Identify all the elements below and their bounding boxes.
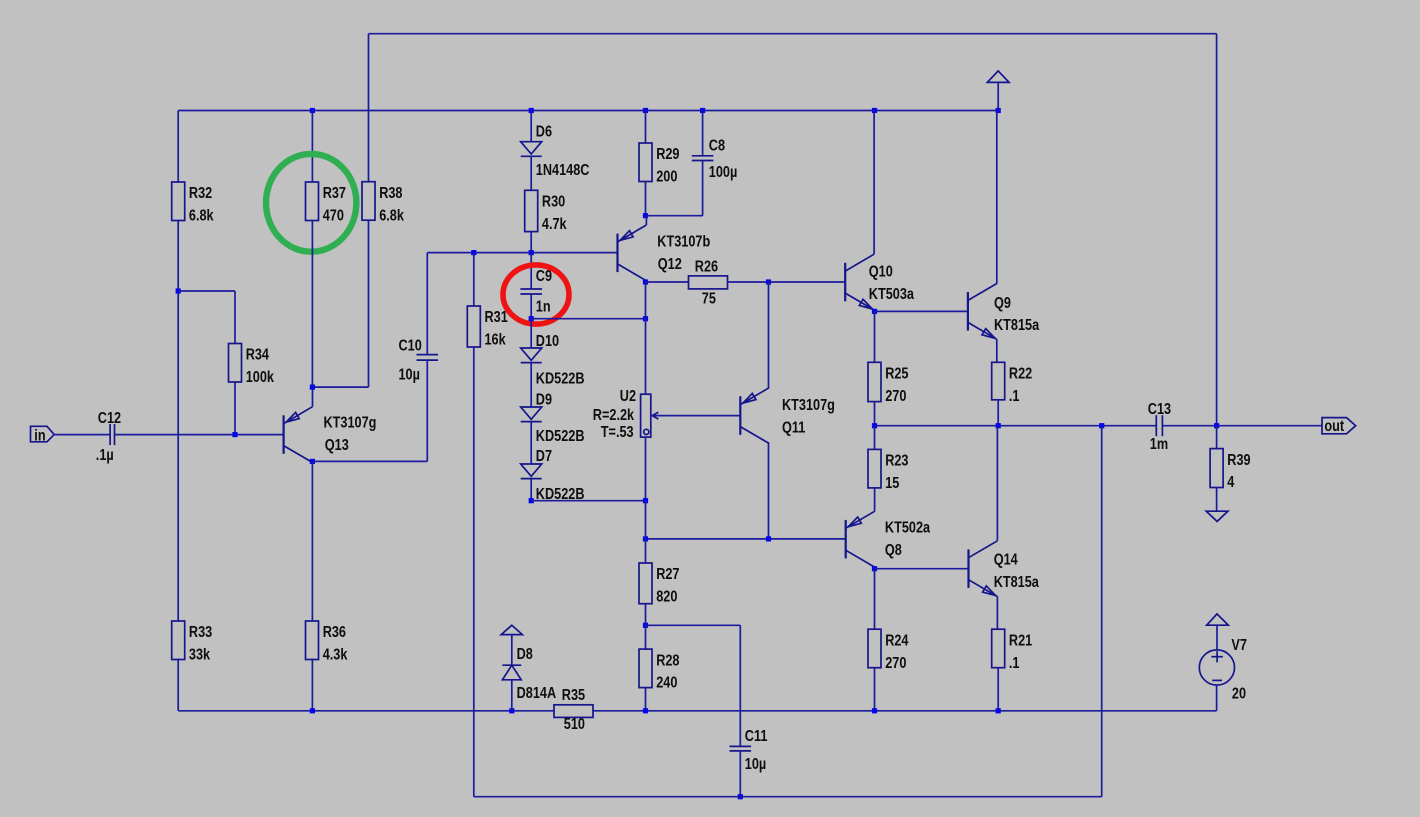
wire R23 top stem (874, 426, 876, 450)
svg-text:C11: C11 (745, 728, 768, 745)
svg-text:R26: R26 (695, 259, 718, 276)
svg-text:C13: C13 (1148, 401, 1171, 418)
wire C9 bottom stem (530, 294, 532, 319)
svg-text:KT815a: KT815a (994, 574, 1039, 591)
wire R30 bottom (530, 232, 532, 253)
junction node B13 branch (176, 288, 181, 293)
wire left column middle (177, 221, 179, 622)
junction Q8 collector node (872, 566, 877, 571)
wire R25 top stem (874, 311, 876, 362)
transistor Q11 (739, 396, 741, 435)
svg-text:75: 75 (702, 291, 716, 308)
wire C10 top stem (426, 253, 428, 355)
svg-text:C8: C8 (709, 137, 725, 154)
junction R31 top (471, 250, 476, 255)
svg-text:4.7k: 4.7k (542, 216, 567, 233)
wire Q14 collector up (996, 426, 998, 541)
wire D7 to bottom node (530, 479, 532, 501)
svg-text:820: 820 (656, 588, 677, 605)
diode D10 (521, 348, 542, 360)
wire C11 bottom stem (739, 751, 741, 797)
wire D8 anode stem (511, 680, 513, 711)
svg-text:10µ: 10µ (399, 366, 420, 383)
wire to R34 top (178, 290, 235, 292)
power flag V7 (1207, 614, 1229, 625)
voltage source V7 (1199, 650, 1234, 685)
wire left column bottom (177, 659, 179, 711)
junction output R25-R23 (872, 423, 877, 428)
wire bottom rail right (593, 710, 1217, 712)
svg-text:U2: U2 (620, 388, 636, 405)
capacitor C11 (730, 745, 752, 747)
wire node to R26 (646, 281, 689, 283)
junction bottom D8 (509, 708, 514, 713)
wire R21 bottom stem (997, 667, 999, 710)
wire Q10 emitter row to Q9 base (875, 310, 968, 312)
svg-text:1n: 1n (536, 298, 551, 315)
wire D10 anode stem (530, 319, 532, 348)
wire V7 bottom stem (1216, 685, 1218, 711)
junction U2 top node (643, 316, 648, 321)
junction node B12 (529, 250, 534, 255)
svg-text:R23: R23 (885, 452, 908, 469)
wire V+ flag stem (997, 82, 999, 110)
svg-text:V7: V7 (1231, 637, 1247, 654)
wire R29 bottom stem (645, 182, 647, 216)
junction node E13 (310, 385, 315, 390)
svg-text:D10: D10 (536, 333, 559, 350)
resistor R32 (172, 182, 185, 221)
junction output feedback (1099, 423, 1104, 428)
wire R31 long bottom (473, 347, 475, 797)
svg-text:R33: R33 (189, 624, 212, 641)
junction Q13 collector node (310, 459, 315, 464)
wire C12 to Q13 base (115, 434, 284, 436)
wire D10 to D9 (530, 363, 532, 407)
wire +rail (178, 110, 998, 112)
ground symbol (1206, 511, 1228, 521)
svg-text:R=2.2k: R=2.2k (593, 407, 634, 424)
wire emitter node to C8 (646, 215, 703, 217)
svg-text:240: 240 (656, 675, 677, 692)
transistor Q10 (844, 263, 846, 302)
resistor R34 (229, 344, 242, 383)
junction C9 bottom node (529, 316, 534, 321)
svg-text:20: 20 (1232, 685, 1246, 702)
svg-text:R22: R22 (1009, 365, 1032, 382)
U2 control arrow (652, 412, 658, 419)
wire R31 upper stem (473, 253, 475, 306)
wire D6 anode stem (530, 111, 532, 142)
port out (1322, 418, 1356, 434)
wire right side of top loop (1216, 34, 1218, 426)
resistor R33 (172, 621, 185, 660)
wire R37 bottom to node E13 (311, 221, 313, 388)
wire R27 bottom stem (645, 604, 647, 626)
svg-text:270: 270 (885, 388, 906, 405)
junction +rail Q9 collector (996, 108, 1001, 113)
wire R39 ground stem (1216, 488, 1218, 512)
svg-text:R36: R36 (323, 624, 346, 641)
svg-text:Q13: Q13 (325, 437, 349, 454)
wire Q13 emitter stub (312, 387, 314, 407)
svg-text:R35: R35 (562, 687, 585, 704)
svg-text:R21: R21 (1009, 632, 1032, 649)
wire R24 top stem (874, 569, 876, 630)
svg-text:R28: R28 (656, 652, 679, 669)
junction Q10 emitter node (872, 309, 877, 314)
wire R34 upper stem (234, 291, 236, 344)
junction U2 bottom node (643, 498, 648, 503)
transistor Q8 (845, 520, 847, 559)
svg-text:.1: .1 (1009, 388, 1020, 405)
resistor R23 (868, 449, 881, 488)
resistor R22 (992, 362, 1005, 400)
wire R29 top stem (645, 111, 647, 144)
wire R26 to node F (728, 281, 769, 283)
svg-text:R31: R31 (485, 309, 508, 326)
svg-text:6.8k: 6.8k (189, 207, 214, 224)
wire U2 column through (645, 501, 647, 563)
wire U2 arrow to Q11 base (652, 415, 740, 417)
diode D9 (521, 407, 542, 419)
svg-text:R32: R32 (189, 185, 212, 202)
svg-text:6.8k: 6.8k (379, 207, 404, 224)
wire Q9 emitter to R22 (996, 339, 998, 362)
resistor R24 (868, 629, 881, 668)
svg-text:R30: R30 (542, 193, 565, 210)
wire R28 top stem (645, 625, 647, 649)
red highlight circle around C9 (503, 265, 569, 324)
wire C8 bottom stem (702, 161, 704, 216)
junction bottom R36 (310, 708, 315, 713)
zener diode D8 (502, 664, 521, 666)
diode D7 (521, 464, 542, 476)
svg-text:KT815a: KT815a (994, 317, 1039, 334)
svg-text:KD522B: KD522B (536, 370, 585, 387)
svg-text:KT3107g: KT3107g (324, 415, 377, 432)
svg-text:KD522B: KD522B (536, 428, 585, 445)
wire node to C11 corner (646, 624, 741, 626)
svg-text:Q14: Q14 (994, 551, 1018, 568)
wire Q9 collector up (996, 111, 998, 284)
wire U2 top stem (645, 319, 647, 395)
wire C11 top stem (739, 625, 741, 746)
svg-text:R39: R39 (1227, 452, 1250, 469)
wire R22 bottom stem (997, 400, 999, 426)
wire R25 bottom stem (874, 402, 876, 426)
resistor R31 (467, 306, 480, 347)
wire R24 bottom stem (874, 667, 876, 710)
svg-text:1m: 1m (1150, 436, 1168, 453)
junction +rail R37 (310, 108, 315, 113)
svg-text:R25: R25 (885, 365, 908, 382)
wire Q12 collector down (645, 282, 647, 319)
wire Q8 collector row (875, 568, 969, 570)
resistor R29 (639, 143, 652, 182)
junction output right column (1214, 423, 1219, 428)
svg-text:Q8: Q8 (885, 542, 902, 559)
junction Q12 collector node (643, 279, 648, 284)
wire C10 bottom link (312, 460, 427, 462)
svg-text:4.3k: 4.3k (323, 646, 348, 663)
port in (31, 426, 55, 442)
capacitor C10 (417, 354, 439, 356)
svg-text:D6: D6 (536, 123, 552, 140)
resistor R36 (306, 621, 319, 660)
resistor R30 (525, 190, 538, 231)
wire Q12 emitter stub (645, 216, 647, 225)
wire R34 lower stem (234, 382, 236, 435)
transistor Q12 (616, 234, 618, 273)
wire R39 top stem (1216, 426, 1218, 449)
svg-text:in: in (34, 427, 45, 444)
svg-text:Q10: Q10 (869, 264, 893, 281)
wire left column top (177, 111, 179, 183)
junction +rail Q10 collector (872, 108, 877, 113)
svg-text:100µ: 100µ (709, 164, 737, 181)
svg-text:16k: 16k (485, 331, 506, 348)
transistor Q13 (283, 415, 285, 454)
junction +rail D6 (529, 108, 534, 113)
svg-text:T=.53: T=.53 (601, 424, 634, 441)
junction Q12 emitter node (643, 213, 648, 218)
svg-text:R27: R27 (656, 566, 679, 583)
svg-text:R24: R24 (885, 632, 908, 649)
resistor R28 (639, 649, 652, 688)
wire output rail left (875, 425, 1157, 427)
wire R37 top stem (311, 111, 313, 183)
transistor Q14 (967, 549, 969, 588)
svg-text:R29: R29 (656, 146, 679, 163)
svg-text:4: 4 (1227, 474, 1234, 491)
resistor R37 (306, 182, 319, 221)
capacitor C9 (520, 288, 542, 290)
svg-text:10µ: 10µ (745, 756, 766, 773)
wire Q10 collector up (873, 111, 875, 255)
power flag D8 (501, 625, 522, 634)
wire bottom rail left (178, 710, 554, 712)
svg-text:C10: C10 (399, 337, 422, 354)
svg-text:Q9: Q9 (994, 295, 1011, 312)
wire top rail (369, 33, 1217, 35)
svg-text:200: 200 (656, 168, 677, 185)
wire D6 to R30 (530, 156, 532, 190)
svg-text:D8: D8 (517, 646, 533, 663)
junction output R22-Q14 (996, 423, 1001, 428)
wire VAS row (646, 538, 846, 540)
wire feedback bottom rail (474, 796, 1102, 798)
wire R36 bottom (311, 659, 313, 711)
wire in to C12 (54, 434, 110, 436)
junction Q11 collector node (766, 536, 771, 541)
junction bottom R28 (643, 708, 648, 713)
wire diode bottom to U2 column (531, 500, 645, 502)
junction bottom R24 (872, 708, 877, 713)
wire D8 flag stem (511, 635, 513, 666)
green highlight circle around R37 (266, 154, 356, 252)
svg-text:1N4148C: 1N4148C (536, 162, 590, 179)
wire Q8 emitter up (874, 488, 876, 512)
svg-text:15: 15 (885, 475, 899, 492)
wire R38 to node E13 (312, 386, 368, 388)
wire U2 bottom stem (645, 437, 647, 501)
svg-text:KT3107b: KT3107b (657, 234, 710, 251)
capacitor C8 (692, 155, 714, 157)
capacitor C12 (109, 424, 111, 445)
svg-text:D814A: D814A (517, 685, 557, 702)
svg-text:270: 270 (885, 655, 906, 672)
svg-text:33k: 33k (189, 646, 210, 663)
svg-text:Q11: Q11 (782, 419, 805, 436)
wire Q14 emitter to R21 (996, 597, 998, 630)
junction VAS row left (643, 536, 648, 541)
junction R27-R28 node (643, 623, 648, 628)
junction C11 on feedback rail (738, 794, 743, 799)
wire C10 bottom stem (426, 360, 428, 461)
svg-text:470: 470 (323, 207, 344, 224)
wire C8 top stem (702, 111, 704, 156)
wire V7 flag stem (1216, 625, 1218, 650)
wire R38 column upper (368, 34, 370, 182)
wire Q12 collector stub (645, 281, 647, 282)
wire feedback vertical (1101, 426, 1103, 797)
junction diode string bottom (529, 498, 534, 503)
wire C9 top stem (530, 253, 532, 289)
svg-text:R34: R34 (246, 347, 269, 364)
capacitor C13 (1155, 415, 1157, 436)
svg-text:KT3107g: KT3107g (782, 397, 835, 414)
power flag V+ (987, 71, 1009, 83)
resistor R26 (689, 276, 728, 289)
wire D9 to D7 (530, 422, 532, 464)
wire Q11 collector down (768, 444, 770, 539)
svg-text:D9: D9 (536, 391, 552, 408)
junction node F (766, 279, 771, 284)
behavioral resistor U2 (641, 394, 651, 437)
resistor R38 (362, 182, 375, 221)
svg-text:.1µ: .1µ (96, 447, 114, 464)
svg-text:R37: R37 (323, 185, 346, 202)
wire node F to Q10 base (769, 281, 846, 283)
svg-text:510: 510 (564, 716, 585, 733)
svg-text:.1: .1 (1009, 655, 1020, 672)
wire R28 bottom stem (645, 688, 647, 711)
svg-text:KT502a: KT502a (885, 519, 930, 536)
svg-text:Q12: Q12 (658, 256, 682, 273)
svg-text:KT503a: KT503a (869, 286, 914, 303)
junction R34 bottom on input wire (232, 432, 237, 437)
svg-text:C12: C12 (98, 410, 121, 427)
svg-text:100k: 100k (246, 369, 274, 386)
junction bottom R21 (996, 708, 1001, 713)
junction +rail C8 (700, 108, 705, 113)
wire R38 column lower (368, 220, 370, 387)
resistor R21 (992, 629, 1005, 668)
wire Q13 collector to R36 (311, 461, 313, 621)
svg-text:out: out (1324, 418, 1344, 435)
resistor R35 (554, 705, 593, 718)
wire C9 node to U2 column (531, 318, 645, 320)
svg-text:R38: R38 (379, 185, 402, 202)
resistor R39 (1210, 449, 1223, 488)
transistor Q9 (967, 292, 969, 331)
diode D6 (521, 142, 542, 154)
resistor R25 (868, 362, 881, 401)
resistor R27 (639, 563, 652, 604)
junction +rail R29 (643, 108, 648, 113)
wire bias row (427, 252, 617, 254)
wire output rail right (1162, 425, 1322, 427)
svg-text:D7: D7 (536, 448, 552, 465)
wire Q11 emitter up (768, 282, 770, 388)
